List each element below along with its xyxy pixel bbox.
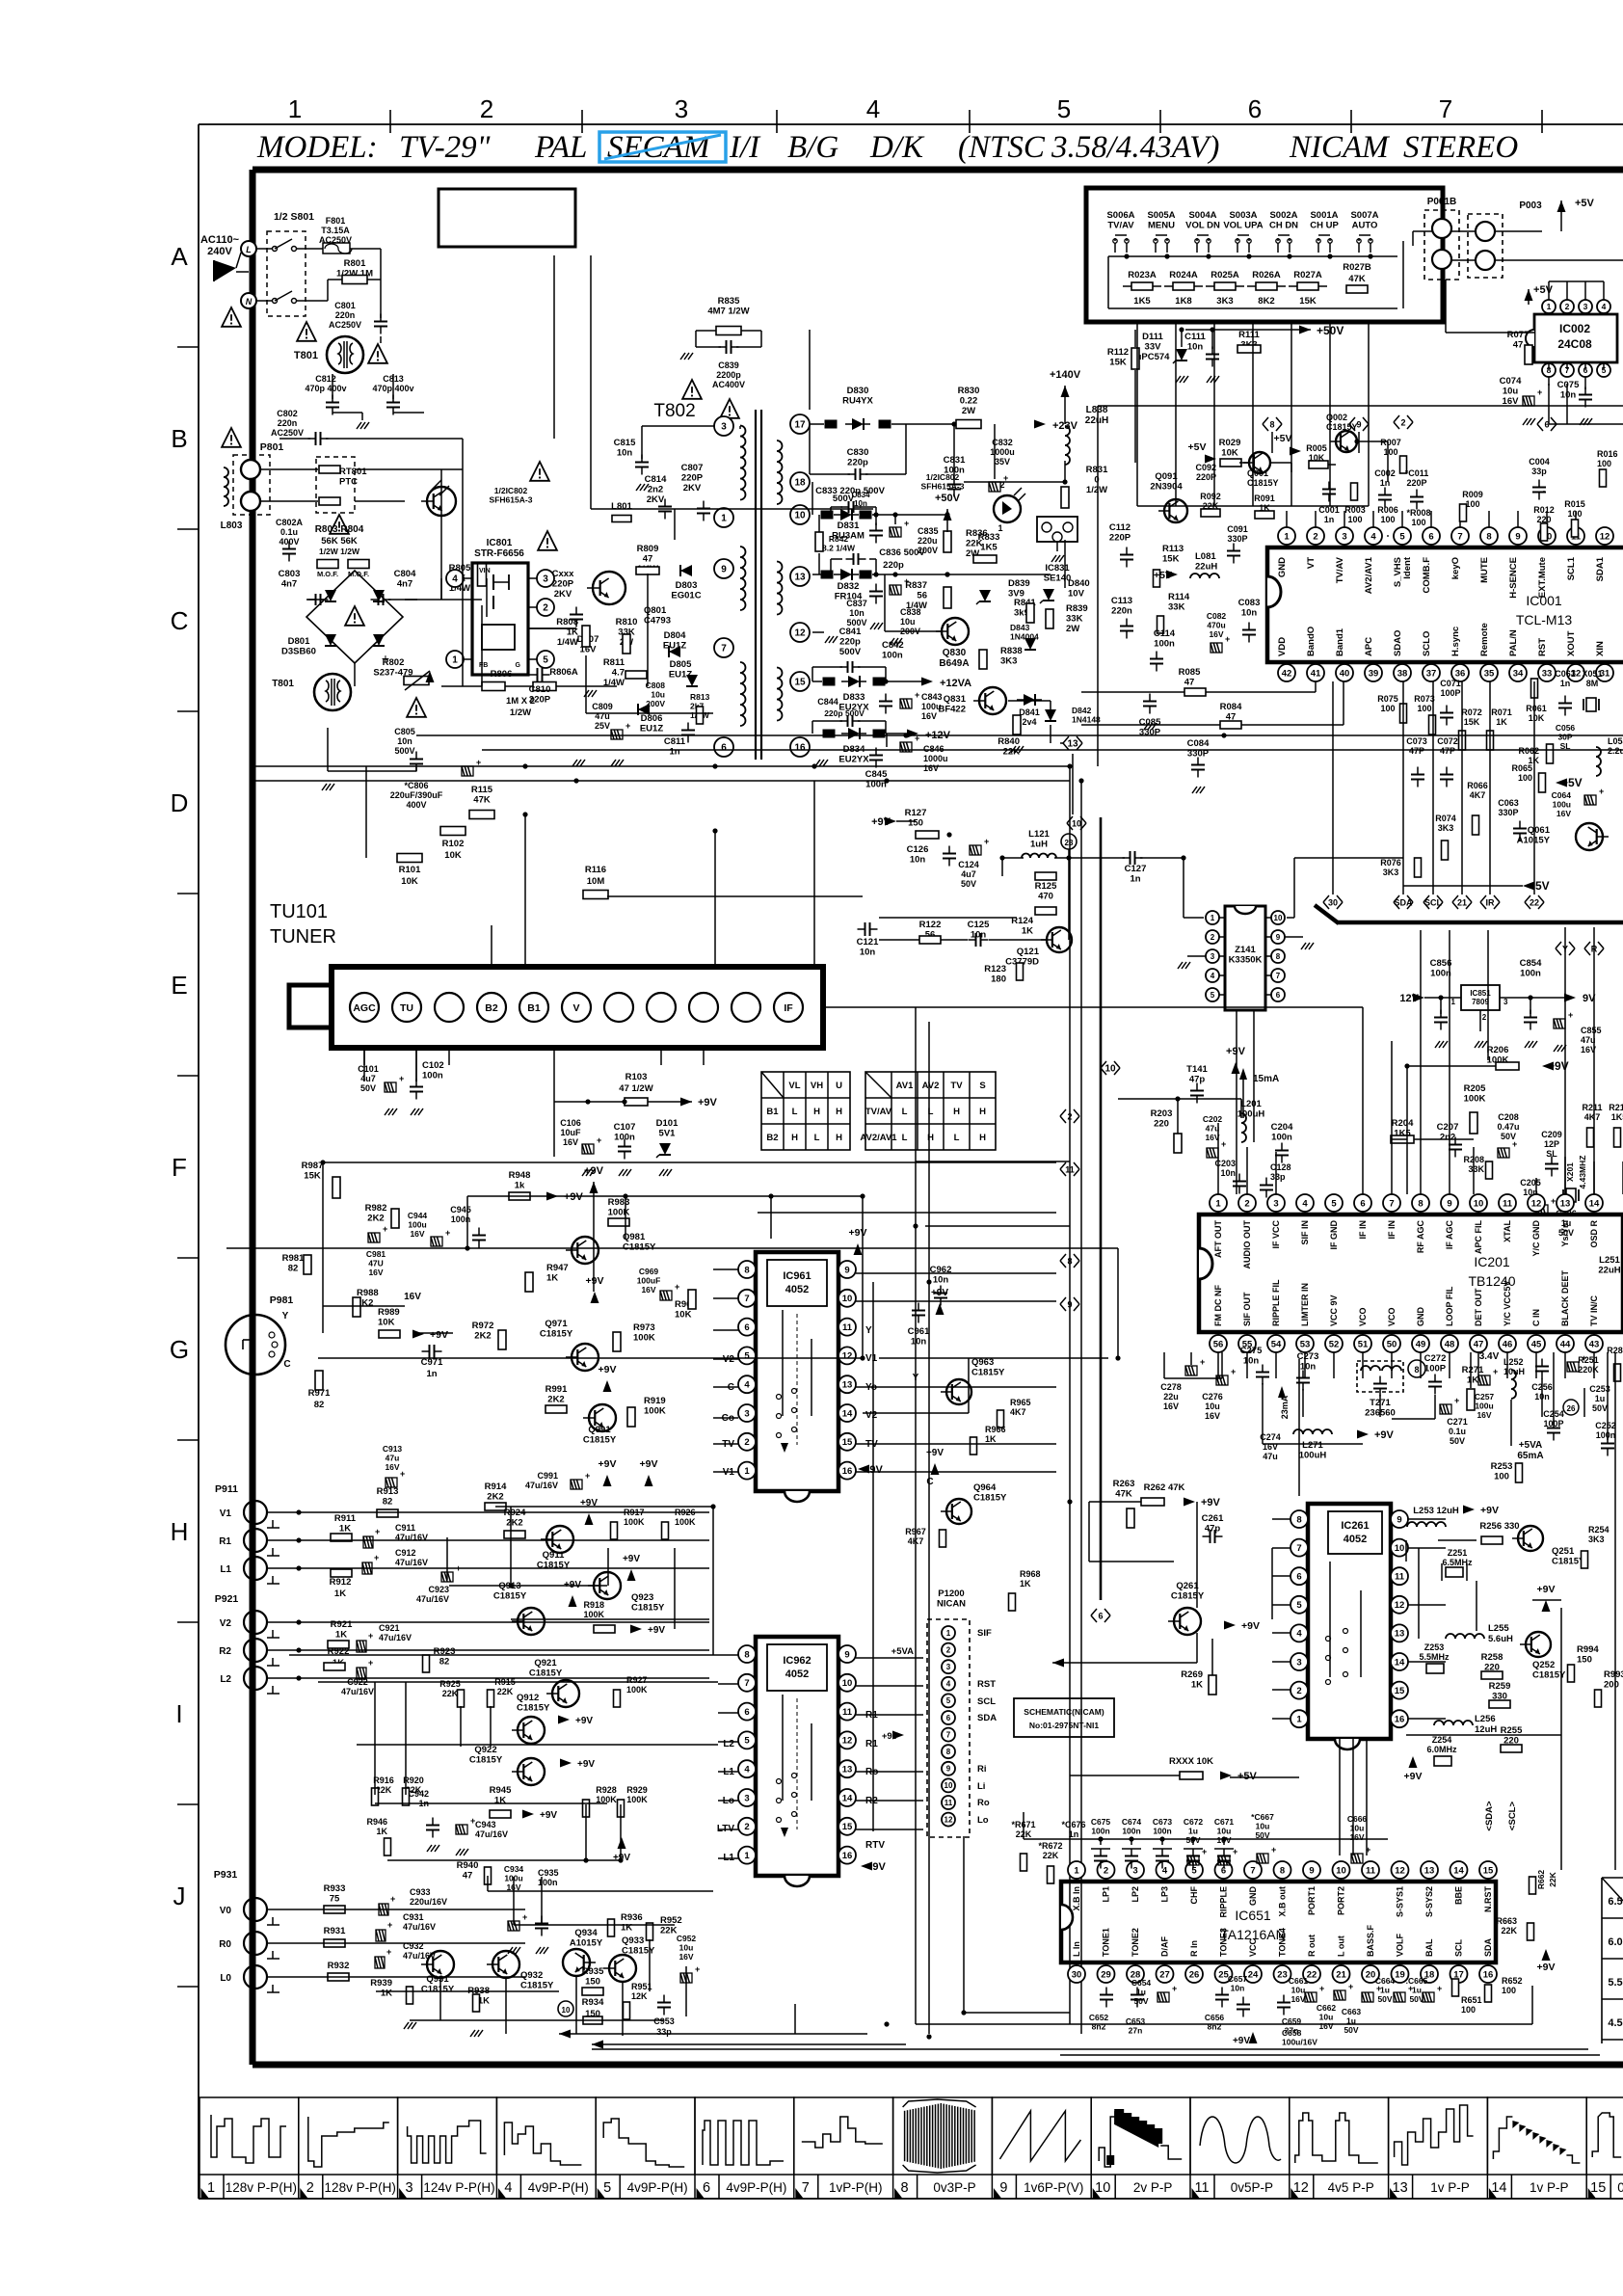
svg-text:C1815Y: C1815Y	[529, 1669, 563, 1679]
svg-text:T801: T801	[272, 679, 294, 689]
svg-text:29: 29	[1101, 1969, 1111, 1980]
svg-text:+5V: +5V	[1237, 1771, 1258, 1782]
svg-text:RF AGC: RF AGC	[1416, 1220, 1425, 1254]
svg-text:C657: C657	[1228, 1974, 1248, 1984]
svg-text:50V: 50V	[1344, 2025, 1358, 2035]
svg-text:R084: R084	[1220, 702, 1242, 712]
svg-text:8: 8	[1276, 952, 1281, 961]
svg-text:Y: Y	[282, 1311, 289, 1322]
svg-text:+9V: +9V	[430, 1329, 448, 1341]
svg-text:8n2: 8n2	[1208, 2022, 1222, 2032]
svg-text:LP2: LP2	[1131, 1886, 1140, 1903]
svg-text:1K: 1K	[985, 1434, 997, 1444]
svg-text:C1815Y: C1815Y	[520, 1981, 554, 1991]
svg-text:H-SENCE: H-SENCE	[1508, 557, 1519, 599]
svg-text:22u: 22u	[1163, 1392, 1179, 1402]
svg-text:R269: R269	[1181, 1669, 1203, 1680]
svg-text:3: 3	[721, 422, 727, 433]
svg-text:50V: 50V	[1450, 1436, 1465, 1446]
svg-text:VCO: VCO	[1387, 1307, 1397, 1326]
svg-text:4052: 4052	[785, 1284, 809, 1295]
svg-text:Q251: Q251	[1552, 1546, 1575, 1557]
svg-text:C666: C666	[1347, 1814, 1368, 1824]
svg-text:3: 3	[1583, 302, 1588, 311]
svg-text:R913: R913	[377, 1486, 399, 1497]
svg-text:C272: C272	[1424, 1353, 1447, 1364]
svg-text:IC651: IC651	[1235, 1908, 1271, 1923]
svg-text:3K3: 3K3	[1216, 296, 1233, 307]
svg-text:100K: 100K	[1464, 1094, 1486, 1105]
svg-text:+: +	[383, 1224, 387, 1234]
svg-text:44: 44	[1560, 1339, 1571, 1349]
svg-text:L256: L256	[1475, 1714, 1496, 1724]
svg-text:100n: 100n	[1153, 1827, 1171, 1836]
svg-text:1: 1	[1215, 1198, 1221, 1209]
svg-text:15: 15	[842, 1822, 853, 1832]
svg-text:C102: C102	[422, 1060, 444, 1071]
svg-text:C652: C652	[1089, 2013, 1109, 2022]
svg-text:RST: RST	[1537, 638, 1548, 656]
svg-text:2v P-P: 2v P-P	[1133, 2180, 1173, 2195]
svg-text:IC001: IC001	[1526, 593, 1562, 608]
svg-text:10n: 10n	[1243, 1356, 1260, 1367]
svg-text:VDD: VDD	[1277, 637, 1288, 656]
svg-text:R065: R065	[1511, 763, 1532, 773]
svg-text:Q922: Q922	[474, 1745, 496, 1755]
svg-text:16V: 16V	[678, 1952, 693, 1962]
svg-text:1N4148: 1N4148	[1072, 715, 1101, 725]
svg-text:8: 8	[1269, 420, 1274, 430]
svg-text:47u/16V: 47u/16V	[475, 1829, 508, 1839]
svg-text:RT801: RT801	[339, 467, 367, 477]
svg-text:GND: GND	[1277, 557, 1288, 577]
svg-text:9: 9	[844, 1649, 849, 1660]
svg-text:H: H	[813, 1107, 820, 1117]
svg-text:10n: 10n	[933, 1275, 949, 1286]
svg-text:10n: 10n	[397, 736, 412, 746]
svg-text:6: 6	[1248, 94, 1262, 123]
svg-text:3.4V: 3.4V	[1479, 1351, 1500, 1362]
svg-text:C674: C674	[1122, 1817, 1142, 1827]
svg-text:R835: R835	[718, 296, 740, 307]
svg-text:47P: 47P	[1409, 746, 1424, 756]
svg-text:B/G: B/G	[787, 130, 838, 165]
svg-text:1: 1	[452, 655, 458, 666]
svg-text:H: H	[927, 1133, 934, 1143]
svg-text:L: L	[902, 1133, 908, 1143]
svg-text:16V: 16V	[1209, 629, 1223, 639]
svg-text:R652: R652	[1502, 1976, 1523, 1986]
svg-text:R123: R123	[984, 964, 1006, 974]
svg-text:25V: 25V	[595, 721, 610, 731]
svg-text:3: 3	[744, 1793, 749, 1803]
svg-text:100P: 100P	[1424, 1364, 1447, 1375]
svg-text:C810: C810	[529, 684, 551, 695]
svg-text:C911: C911	[395, 1523, 415, 1533]
svg-text:+50V: +50V	[935, 493, 961, 504]
svg-text:Band1: Band1	[1335, 627, 1345, 656]
svg-text:SDAO: SDAO	[1393, 630, 1403, 656]
svg-text:41: 41	[1311, 668, 1321, 679]
svg-text:R947: R947	[546, 1263, 569, 1273]
svg-text:R073: R073	[1414, 694, 1435, 704]
svg-text:220: 220	[1154, 1119, 1169, 1130]
svg-text:150: 150	[585, 1977, 600, 1988]
svg-text:36: 36	[1455, 668, 1466, 679]
svg-text:C933: C933	[410, 1887, 431, 1897]
svg-text:SDA: SDA	[1483, 1937, 1493, 1957]
svg-text:VCO: VCO	[1358, 1307, 1368, 1326]
svg-text:CH UP: CH UP	[1310, 221, 1339, 231]
svg-text:+9V: +9V	[1548, 1059, 1569, 1073]
svg-text:2W: 2W	[962, 406, 975, 416]
svg-text:R062: R062	[1518, 746, 1539, 756]
svg-text:uPC574: uPC574	[1136, 352, 1171, 362]
svg-text:VOLF: VOLF	[1396, 1933, 1405, 1957]
svg-text:L251: L251	[1599, 1255, 1620, 1266]
svg-text:D/K: D/K	[869, 130, 925, 165]
svg-text:100: 100	[1347, 515, 1362, 524]
svg-text:BBE: BBE	[1454, 1886, 1464, 1905]
svg-text:R806A: R806A	[549, 667, 578, 678]
svg-text:L081: L081	[1195, 551, 1216, 562]
svg-text:AUDIO OUT: AUDIO OUT	[1242, 1220, 1252, 1269]
svg-text:3K3: 3K3	[1588, 1535, 1605, 1544]
svg-text:+5VA: +5VA	[1519, 1440, 1543, 1451]
svg-text:C934: C934	[504, 1864, 524, 1874]
svg-text:TV/AV: TV/AV	[865, 1107, 892, 1117]
svg-text:R921: R921	[331, 1619, 353, 1630]
svg-text:C275: C275	[1240, 1346, 1263, 1356]
svg-text:RIPPLE FIL: RIPPLE FIL	[1271, 1279, 1281, 1326]
svg-text:Z251: Z251	[1448, 1548, 1468, 1558]
svg-text:Q964: Q964	[973, 1482, 997, 1493]
svg-text:10n: 10n	[854, 499, 867, 508]
svg-text:+5V: +5V	[1274, 433, 1292, 444]
svg-text:47K: 47K	[473, 795, 491, 806]
svg-text:12V: 12V	[1399, 993, 1419, 1004]
svg-text:45: 45	[1531, 1339, 1542, 1349]
svg-text:12: 12	[1395, 1865, 1405, 1876]
svg-text:2N3904: 2N3904	[1150, 482, 1183, 493]
svg-text:2K2: 2K2	[474, 1331, 491, 1342]
svg-text:C061: C061	[1555, 669, 1576, 679]
svg-text:100K: 100K	[633, 1333, 655, 1344]
svg-text:C1815Y: C1815Y	[1247, 478, 1279, 488]
svg-text:10: 10	[1072, 819, 1081, 829]
svg-text:4u7: 4u7	[360, 1074, 376, 1083]
svg-text:F: F	[172, 1153, 187, 1182]
svg-text:C1815Y: C1815Y	[973, 1493, 1007, 1504]
svg-text:1/2IC802: 1/2IC802	[926, 472, 960, 482]
svg-text:128v P-P(H): 128v P-P(H)	[325, 2180, 396, 2195]
svg-text:240V: 240V	[207, 246, 232, 257]
svg-text:10: 10	[794, 511, 806, 521]
svg-text:220n: 220n	[335, 310, 356, 320]
svg-text:IC962: IC962	[783, 1655, 811, 1667]
svg-text:4n7: 4n7	[281, 579, 297, 590]
svg-text:10: 10	[945, 1781, 953, 1790]
svg-text:220u: 220u	[918, 536, 938, 546]
svg-text:R989: R989	[378, 1307, 400, 1318]
svg-text:DET OUT: DET OUT	[1474, 1288, 1483, 1326]
svg-text:15: 15	[1483, 1865, 1494, 1876]
svg-text:220P: 220P	[1196, 472, 1216, 482]
svg-text:11: 11	[1503, 1198, 1513, 1209]
svg-text:+: +	[1233, 1847, 1237, 1856]
svg-text:2.2u: 2.2u	[1608, 746, 1623, 756]
svg-text:1K5: 1K5	[980, 543, 998, 553]
svg-text:R948: R948	[509, 1170, 531, 1181]
svg-text:100K: 100K	[644, 1406, 666, 1417]
svg-text:C1815Y: C1815Y	[469, 1755, 503, 1766]
svg-text:100K: 100K	[675, 1517, 696, 1527]
svg-text:T801: T801	[294, 350, 318, 361]
svg-text:330P: 330P	[1139, 728, 1161, 738]
svg-text:18: 18	[794, 478, 806, 489]
svg-text:10u: 10u	[1350, 1824, 1365, 1833]
svg-text:P981: P981	[270, 1295, 294, 1306]
svg-text:10K: 10K	[675, 1310, 692, 1321]
svg-text:47u/16V: 47u/16V	[525, 1481, 558, 1490]
svg-text:50V: 50V	[1377, 1994, 1392, 2004]
svg-text:128v P-P(H): 128v P-P(H)	[226, 2180, 297, 2195]
svg-text:R912: R912	[330, 1577, 352, 1588]
svg-text:Remote: Remote	[1479, 623, 1490, 656]
svg-text:220u/16V: 220u/16V	[410, 1897, 447, 1907]
svg-text:1: 1	[1296, 1715, 1302, 1725]
svg-text:H: H	[791, 1133, 798, 1143]
svg-text:16V: 16V	[923, 763, 939, 773]
svg-text:D833: D833	[843, 692, 865, 703]
svg-text:22uH: 22uH	[1085, 415, 1108, 426]
svg-text:B1: B1	[766, 1107, 779, 1117]
svg-text:1vP-P(H): 1vP-P(H)	[829, 2180, 883, 2195]
svg-text:R993: R993	[1604, 1669, 1623, 1680]
svg-text:C1815Y: C1815Y	[1171, 1591, 1205, 1602]
svg-text:Q252: Q252	[1532, 1660, 1555, 1670]
svg-text:C: C	[171, 606, 189, 635]
svg-text:4: 4	[1162, 1865, 1168, 1876]
svg-text:4.43MHZ: 4.43MHZ	[1578, 1156, 1587, 1189]
svg-text:C843: C843	[921, 692, 943, 702]
svg-text:Z141: Z141	[1235, 945, 1256, 955]
svg-text:Q911: Q911	[543, 1550, 565, 1561]
svg-text:9: 9	[1397, 1514, 1401, 1525]
svg-text:R972: R972	[472, 1321, 494, 1331]
svg-text:R211: R211	[1582, 1103, 1602, 1112]
svg-text:2KV: 2KV	[554, 589, 572, 600]
svg-text:+: +	[387, 1920, 392, 1930]
svg-text:H: H	[836, 1133, 842, 1143]
svg-text:100n: 100n	[1154, 639, 1175, 650]
svg-text:R840: R840	[998, 736, 1020, 747]
svg-text:C1815Y: C1815Y	[971, 1368, 1005, 1378]
svg-text:C056: C056	[1556, 723, 1576, 733]
svg-text:C834: C834	[851, 491, 870, 499]
svg-text:VOL DN: VOL DN	[1185, 221, 1220, 231]
svg-text:R271: R271	[1462, 1365, 1484, 1375]
svg-text:47u: 47u	[1263, 1452, 1278, 1461]
svg-text:3: 3	[406, 2180, 413, 2196]
svg-text:10n: 10n	[1220, 1168, 1236, 1178]
svg-text:14: 14	[842, 1408, 853, 1419]
svg-text:D805: D805	[670, 659, 692, 670]
svg-text:S004A: S004A	[1188, 210, 1216, 221]
svg-text:SIF OUT: SIF OUT	[1242, 1292, 1252, 1326]
svg-text:R127: R127	[905, 808, 927, 818]
svg-text:1: 1	[207, 2180, 215, 2196]
svg-text:+: +	[368, 1658, 373, 1668]
svg-text:2: 2	[1313, 531, 1317, 542]
svg-text:C942: C942	[408, 1789, 429, 1799]
svg-text:C855: C855	[1581, 1026, 1602, 1035]
svg-text:22K: 22K	[1548, 1871, 1557, 1886]
svg-text:V2: V2	[220, 1618, 232, 1629]
svg-text:Z253: Z253	[1424, 1642, 1445, 1652]
svg-text:C814: C814	[645, 474, 667, 485]
svg-text:C107: C107	[614, 1122, 636, 1133]
svg-text:10K: 10K	[444, 850, 462, 861]
svg-text:1K: 1K	[376, 1827, 387, 1836]
svg-text:14: 14	[1453, 1865, 1464, 1876]
svg-text:4K7: 4K7	[1584, 1112, 1601, 1122]
svg-text:H: H	[979, 1133, 986, 1143]
svg-text:R out: R out	[1307, 1935, 1317, 1957]
svg-text:R925: R925	[439, 1679, 461, 1689]
svg-text:XTAL: XTAL	[1503, 1220, 1512, 1242]
svg-text:5: 5	[1296, 1600, 1302, 1611]
svg-text:LOOP FIL: LOOP FIL	[1445, 1286, 1454, 1326]
svg-text:H.sync: H.sync	[1450, 627, 1461, 656]
svg-text:100: 100	[1461, 2005, 1476, 2015]
svg-text:C124: C124	[958, 860, 979, 869]
svg-text:Q932: Q932	[520, 1970, 543, 1981]
svg-text:Ri: Ri	[977, 1764, 987, 1775]
svg-text:R991: R991	[545, 1384, 568, 1395]
svg-text:9: 9	[721, 565, 727, 575]
svg-text:D/AF: D/AF	[1160, 1936, 1170, 1957]
svg-text:10n: 10n	[617, 448, 633, 459]
svg-text:+: +	[1437, 1984, 1442, 1993]
svg-text:T141: T141	[1186, 1064, 1208, 1075]
svg-text:21: 21	[1336, 1969, 1346, 1980]
svg-text:C952: C952	[677, 1934, 697, 1943]
svg-text:7: 7	[1276, 972, 1281, 980]
svg-text:R932: R932	[328, 1961, 350, 1971]
svg-text:56: 56	[1213, 1339, 1224, 1349]
svg-text:1/2IC802: 1/2IC802	[494, 486, 528, 495]
svg-text:P001B: P001B	[1427, 197, 1457, 207]
svg-text:RST: RST	[977, 1679, 996, 1690]
svg-text:9: 9	[946, 1765, 951, 1774]
svg-text:100n: 100n	[1271, 1133, 1292, 1143]
svg-text:+: +	[375, 1527, 380, 1536]
svg-text:R939: R939	[370, 1978, 392, 1989]
svg-text:P911: P911	[215, 1483, 238, 1495]
svg-text:2K2: 2K2	[487, 1492, 503, 1503]
svg-text:4v5 P-P: 4v5 P-P	[1328, 2180, 1374, 2195]
svg-text:+: +	[1582, 1353, 1586, 1363]
svg-text:R212: R212	[1609, 1103, 1623, 1112]
svg-text:MENU: MENU	[1148, 221, 1175, 231]
svg-text:R810: R810	[616, 617, 638, 627]
svg-text:+9V: +9V	[575, 1716, 593, 1726]
svg-text:C121: C121	[857, 937, 879, 948]
svg-text:9: 9	[1276, 933, 1281, 942]
svg-text:D831: D831	[838, 521, 860, 531]
svg-text:35: 35	[1484, 668, 1495, 679]
svg-text:AGC: AGC	[353, 1002, 376, 1014]
svg-text:4K7: 4K7	[1010, 1407, 1026, 1417]
svg-text:4: 4	[504, 2180, 512, 2196]
svg-text:C271: C271	[1447, 1417, 1468, 1427]
svg-text:100K: 100K	[626, 1795, 648, 1804]
svg-text:11: 11	[842, 1707, 853, 1718]
svg-text:47U: 47U	[368, 1259, 384, 1268]
svg-text:+: +	[915, 690, 919, 700]
svg-text:L out: L out	[1337, 1936, 1346, 1957]
svg-text:11: 11	[1395, 1572, 1405, 1583]
svg-text:C837: C837	[846, 599, 867, 608]
svg-text:220p 500V: 220p 500V	[824, 708, 865, 718]
svg-text:<SDA>: <SDA>	[1484, 1801, 1495, 1831]
svg-text:SFH615A-3: SFH615A-3	[490, 495, 533, 505]
svg-text:I: I	[175, 1699, 182, 1728]
svg-text:+9V: +9V	[931, 1288, 948, 1298]
svg-text:4: 4	[1302, 1198, 1308, 1209]
svg-text:C661: C661	[1289, 1976, 1309, 1986]
svg-text:R009: R009	[1462, 490, 1483, 499]
svg-text:C664: C664	[1375, 1976, 1396, 1986]
svg-text:100K: 100K	[624, 1517, 645, 1527]
svg-text:N.RST: N.RST	[1483, 1885, 1493, 1912]
svg-text:8: 8	[744, 1265, 749, 1275]
svg-text:1v P-P: 1v P-P	[1430, 2180, 1470, 2195]
svg-text:7: 7	[744, 1678, 749, 1689]
svg-text:Q912: Q912	[517, 1693, 539, 1703]
svg-text:4: 4	[1296, 1629, 1302, 1640]
svg-text:R262 47K: R262 47K	[1144, 1482, 1185, 1493]
svg-text:C113: C113	[1111, 596, 1132, 606]
svg-text:PTC: PTC	[339, 477, 358, 488]
svg-text:Q831: Q831	[944, 694, 967, 705]
svg-text:8n2: 8n2	[1092, 2022, 1106, 2032]
svg-text:24C08: 24C08	[1557, 337, 1592, 351]
svg-text:G: G	[516, 662, 521, 669]
svg-text:9: 9	[1515, 531, 1520, 542]
svg-text:C802A: C802A	[276, 518, 304, 527]
svg-text:16V: 16V	[641, 1285, 655, 1295]
svg-text:1/4W: 1/4W	[603, 678, 625, 688]
svg-text:Q931: Q931	[426, 1974, 449, 1985]
svg-text:C654: C654	[1131, 1978, 1152, 1988]
svg-text:C658: C658	[1282, 2028, 1302, 2038]
svg-text:10: 10	[1395, 1543, 1405, 1554]
svg-text:15mA: 15mA	[1253, 1074, 1279, 1084]
svg-text:0v3P-P: 0v3P-P	[933, 2180, 975, 2195]
svg-text:CH DN: CH DN	[1269, 221, 1298, 231]
svg-text:1v6P-P(V): 1v6P-P(V)	[1024, 2180, 1083, 2195]
svg-text:2: 2	[744, 1822, 749, 1832]
svg-text:10n: 10n	[971, 930, 987, 941]
svg-text:R006: R006	[1377, 505, 1398, 515]
svg-text:22K: 22K	[497, 1687, 514, 1696]
svg-text:+9V: +9V	[871, 816, 891, 828]
svg-text:D803: D803	[676, 580, 698, 591]
svg-text:1/4W: 1/4W	[906, 601, 927, 611]
svg-text:VCC 9V: VCC 9V	[1329, 1295, 1339, 1326]
